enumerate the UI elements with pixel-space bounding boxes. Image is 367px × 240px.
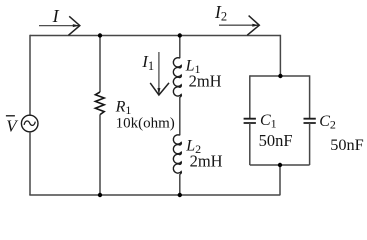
wire C2 branch lower [309, 123, 311, 165]
wire C1 branch upper [249, 75, 251, 118]
svg-text:10k(ohm): 10k(ohm) [116, 115, 175, 131]
svg-text:I1: I1 [141, 52, 154, 73]
wire top rail [30, 35, 280, 37]
svg-text:C2: C2 [319, 113, 336, 132]
inductor L1 coil [173, 58, 181, 97]
svg-text:2mH: 2mH [189, 72, 222, 91]
svg-text:50nF: 50nF [330, 135, 363, 154]
wire bottom rail [29, 194, 280, 196]
wire left vertical lower [29, 132, 31, 195]
wire left vertical upper [29, 35, 31, 116]
svg-text:C1: C1 [260, 112, 277, 131]
node dot capacitor top junction [278, 74, 282, 78]
wire C1 branch lower [249, 123, 251, 165]
wire resistor branch lower [99, 115, 101, 195]
voltage source V circle [21, 115, 38, 132]
wire right vertical top [279, 35, 281, 76]
wire inductor branch top [179, 36, 181, 59]
wire capacitor box top rail [250, 75, 310, 77]
svg-text:50nF: 50nF [259, 131, 293, 150]
capacitor C1 plates [244, 119, 256, 123]
wire inductor branch bottom [179, 174, 181, 195]
capacitor C2 plates [304, 119, 316, 123]
svg-text:V: V [6, 117, 19, 136]
wire inductor branch middle [179, 97, 181, 135]
arrow I1 current [150, 52, 169, 95]
wire capacitor box bottom rail [250, 164, 310, 166]
node dot bottom resistor junction [98, 193, 102, 197]
node dot capacitor bottom junction [278, 163, 282, 167]
resistor R1 zigzag [95, 92, 104, 115]
wire resistor branch upper [99, 36, 101, 93]
node dot bottom inductor junction [178, 193, 182, 197]
svg-text:I2: I2 [214, 2, 227, 24]
label V bar [6, 116, 19, 136]
svg-text:I: I [52, 6, 60, 26]
wire capacitor feed lower [279, 165, 281, 195]
wire C2 branch upper [309, 75, 311, 118]
inductor L2 coil [173, 135, 181, 174]
svg-text:R1: R1 [115, 98, 132, 117]
svg-text:2mH: 2mH [190, 152, 223, 171]
node dot top inductor junction [178, 33, 182, 37]
voltage source sine wave [24, 121, 35, 125]
arrow I2 current [219, 16, 259, 36]
arrow I current [39, 16, 80, 35]
node dot top resistor junction [98, 33, 102, 37]
